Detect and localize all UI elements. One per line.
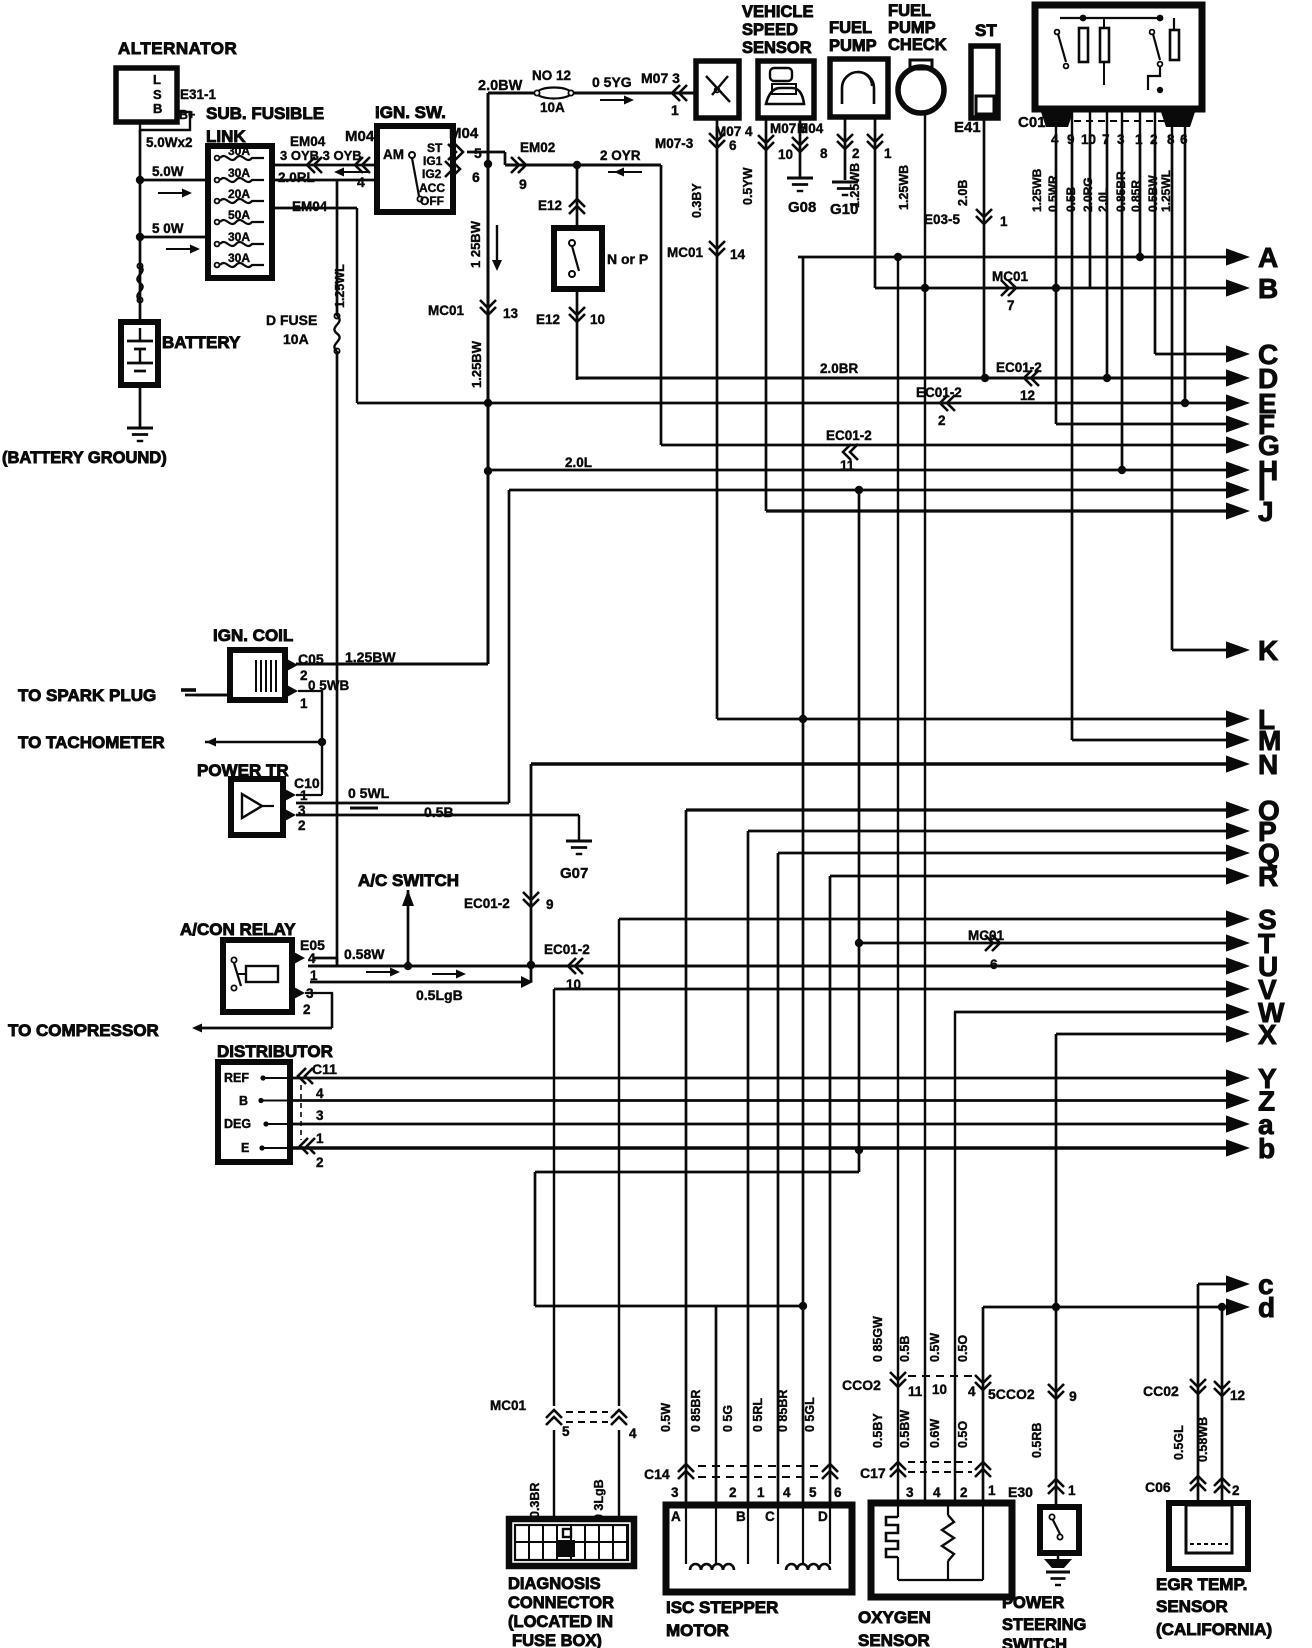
svg-text:MC01: MC01 [490, 1398, 527, 1413]
svg-text:EM02: EM02 [520, 140, 555, 155]
wire 0.5GL EGR [1197, 1284, 1200, 1503]
svg-text:(LOCATED IN: (LOCATED IN [508, 1613, 613, 1631]
svg-text:0 5WL: 0 5WL [348, 785, 390, 801]
wire speed sensor right pin to G08 [799, 118, 802, 178]
svg-text:10: 10 [778, 147, 793, 162]
svg-text:0.5GL: 0.5GL [1172, 1425, 1186, 1460]
svg-text:E: E [241, 1141, 249, 1155]
svg-text:1.25WB: 1.25WB [848, 163, 862, 208]
svg-text:EC01-2: EC01-2 [826, 428, 872, 443]
svg-text:1 25BW: 1 25BW [468, 220, 483, 268]
wire 0.5B to ground G07 [578, 815, 580, 841]
wire 1.25WB fuel pump check / 0.5B [924, 114, 926, 1503]
svg-text:EGR TEMP.: EGR TEMP. [1156, 1575, 1247, 1594]
svg-text:M04: M04 [797, 121, 824, 136]
svg-text:11: 11 [908, 1384, 923, 1399]
svg-text:1: 1 [1068, 1483, 1076, 1498]
wire 1.25WB fuel pump to row B [874, 117, 877, 288]
svg-text:8: 8 [820, 146, 828, 161]
battery ground [139, 385, 142, 428]
svg-text:2: 2 [316, 1155, 324, 1170]
svg-text:30A: 30A [228, 230, 250, 244]
svg-text:1.25WB: 1.25WB [897, 165, 911, 210]
wire row O [686, 808, 1228, 811]
svg-text:1: 1 [300, 696, 308, 711]
svg-text:10: 10 [590, 312, 605, 327]
wire 0.5WL power TR pin1 [296, 802, 509, 805]
svg-text:SWITCH: SWITCH [1002, 1636, 1067, 1648]
svg-text:(CALIFORNIA): (CALIFORNIA) [1156, 1620, 1272, 1639]
svg-text:FUEL: FUEL [829, 19, 872, 37]
svg-text:1: 1 [310, 968, 318, 983]
svg-text:G07: G07 [560, 865, 588, 882]
svg-text:3: 3 [1117, 132, 1125, 147]
oxygen sensor [871, 1503, 1012, 1597]
svg-text:R: R [1258, 861, 1278, 892]
svg-text:ST: ST [427, 141, 443, 155]
svg-text:M04: M04 [449, 125, 479, 142]
svg-text:4: 4 [933, 1485, 941, 1500]
svg-text:7: 7 [1102, 132, 1110, 147]
svg-text:1.25BW: 1.25BW [345, 649, 396, 665]
svg-text:0 5YG: 0 5YG [592, 74, 632, 90]
wire row T [859, 942, 1228, 945]
svg-text:B: B [153, 101, 162, 116]
svg-text:AM: AM [383, 147, 404, 162]
svg-text:5 0W: 5 0W [152, 221, 184, 236]
wire row C [1155, 353, 1228, 356]
svg-text:0.5B: 0.5B [1064, 186, 1078, 212]
wire row G [661, 444, 1228, 447]
svg-text:0.5O: 0.5O [956, 1335, 970, 1362]
svg-text:B: B [1258, 273, 1278, 304]
wire 0.3BR row V to diagnosis [553, 989, 555, 1406]
svg-text:30A: 30A [228, 166, 250, 180]
wire EM02 2.0YR [505, 164, 661, 167]
svg-text:11: 11 [840, 458, 855, 473]
svg-text:TO SPARK PLUG: TO SPARK PLUG [18, 686, 156, 705]
wire 1.25BW to ign coil [296, 663, 488, 666]
svg-text:1: 1 [1135, 132, 1143, 147]
svg-text:OFF: OFF [420, 194, 444, 208]
svg-text:5: 5 [474, 145, 482, 161]
svg-text:0 85BR: 0 85BR [776, 1390, 790, 1432]
svg-text:M07 3: M07 3 [641, 70, 680, 86]
ISC stepper motor [666, 1505, 852, 1592]
wire row b branch down to row d [858, 1150, 861, 1172]
wire 1.25BW main vertical [487, 93, 490, 664]
wire 2.0BW top [488, 92, 537, 95]
svg-text:4: 4 [968, 1384, 976, 1399]
svg-text:10A: 10A [283, 331, 309, 347]
wire 1.25WB C01-4 to row F [1055, 134, 1058, 424]
svg-text:ACC: ACC [419, 181, 445, 195]
svg-text:C06: C06 [1145, 1479, 1171, 1495]
svg-text:7: 7 [1007, 298, 1015, 313]
svg-text:4: 4 [1051, 132, 1059, 147]
svg-text:0.85R: 0.85R [1129, 180, 1143, 212]
wire 3 OYB fusible link to IGN SW [272, 164, 377, 167]
wire 1.25WL C01-6 to row E [1184, 134, 1187, 403]
svg-text:2: 2 [729, 1485, 737, 1500]
wire row d left segment [535, 1305, 803, 1308]
svg-text:A/CON RELAY: A/CON RELAY [180, 920, 296, 939]
svg-text:4: 4 [783, 1485, 791, 1500]
svg-text:EM04: EM04 [290, 134, 326, 149]
svg-text:DEG: DEG [224, 1117, 251, 1131]
svg-text:TO COMPRESSOR: TO COMPRESSOR [8, 1021, 159, 1040]
svg-text:1: 1 [316, 1131, 324, 1146]
svg-text:1.25WL: 1.25WL [1159, 170, 1173, 212]
svg-text:ISC STEPPER: ISC STEPPER [666, 1598, 778, 1617]
svg-text:0.58W: 0.58W [344, 946, 385, 962]
wire 0.5LgB relay pin3 [310, 981, 524, 984]
svg-text:E12: E12 [538, 198, 562, 213]
C01 relay block [1035, 5, 1202, 109]
svg-text:0.3BY: 0.3BY [690, 183, 704, 218]
svg-text:1: 1 [757, 1485, 765, 1500]
wire row Y [290, 1077, 1228, 1080]
svg-text:2: 2 [303, 1002, 311, 1017]
wire 0.3LgB lower [618, 1430, 620, 1519]
wire row M [1072, 739, 1228, 742]
svg-text:1.25BW: 1.25BW [469, 340, 484, 388]
svg-text:SENSOR: SENSOR [742, 39, 812, 57]
svg-text:E31-1: E31-1 [180, 87, 217, 102]
fuse NO 12 10A [537, 88, 571, 99]
svg-text:NO 12: NO 12 [532, 68, 571, 83]
svg-text:0.5BY: 0.5BY [871, 1413, 885, 1448]
svg-text:3: 3 [316, 1108, 324, 1123]
svg-text:EC01-2: EC01-2 [916, 385, 962, 400]
diagnosis connector [509, 1519, 634, 1566]
svg-text:2: 2 [938, 413, 946, 428]
wire 0.85BR long vertical [802, 257, 805, 1505]
wire EM04 out [272, 207, 357, 210]
G07 ground [566, 840, 592, 843]
svg-text:K: K [1258, 635, 1278, 666]
svg-text:1.25WB: 1.25WB [1030, 168, 1044, 212]
svg-text:2: 2 [1232, 1483, 1240, 1498]
svg-text:B: B [239, 1094, 248, 1108]
svg-text:3: 3 [906, 1485, 914, 1500]
svg-text:1: 1 [671, 102, 679, 118]
svg-text:2: 2 [298, 818, 306, 833]
wire fuel pump to G10 [844, 117, 847, 180]
svg-text:EM04: EM04 [292, 199, 328, 214]
wire coil pin1 [298, 690, 322, 692]
svg-text:FUSE BOX): FUSE BOX) [512, 1632, 602, 1648]
wire 1.25WL to A/CON relay [336, 351, 339, 963]
svg-text:STEERING: STEERING [1002, 1616, 1086, 1634]
M07 switch box (top) [696, 61, 739, 118]
wire row L [717, 718, 1228, 721]
wire 0.5BWB EGR [1221, 1307, 1224, 1503]
wire row J [766, 509, 1228, 512]
svg-text:0.5W: 0.5W [659, 1403, 673, 1432]
svg-text:POWER: POWER [1002, 1594, 1064, 1612]
wire 2.0B from ST to row D [983, 118, 986, 378]
wire to row d [534, 1172, 537, 1306]
wire 0.85BR ISC [715, 1306, 718, 1505]
svg-text:ALTERNATOR: ALTERNATOR [118, 39, 237, 58]
svg-text:2.0BW: 2.0BW [478, 78, 523, 94]
svg-text:0.5LgB: 0.5LgB [416, 987, 463, 1003]
wire 0.5O to oxygen sensor [982, 1307, 985, 1503]
svg-text:4: 4 [357, 174, 365, 190]
wire 1.25WL from fusible link [336, 180, 339, 316]
wire row P [748, 830, 1228, 833]
squiggle fusible segment [137, 266, 142, 300]
wire row J branch down [858, 490, 861, 1150]
svg-text:9: 9 [1069, 1388, 1077, 1404]
svg-text:6: 6 [1180, 132, 1188, 147]
wire row S [619, 918, 1228, 921]
svg-text:3: 3 [298, 803, 306, 818]
svg-text:0.5B: 0.5B [898, 1336, 912, 1362]
svg-text:1: 1 [988, 1483, 996, 1498]
wire row a [290, 1123, 1228, 1126]
svg-text:0.5BW: 0.5BW [898, 1410, 912, 1448]
svg-text:N or P: N or P [607, 251, 648, 267]
svg-text:10: 10 [932, 1382, 947, 1397]
svg-text:MOTOR: MOTOR [666, 1621, 729, 1640]
svg-text:DISTRIBUTOR: DISTRIBUTOR [217, 1042, 333, 1061]
svg-text:2.0BR: 2.0BR [820, 361, 859, 376]
svg-text:0.5W: 0.5W [928, 1333, 942, 1362]
svg-text:2.0RG: 2.0RG [1081, 177, 1095, 212]
svg-text:9: 9 [1067, 132, 1075, 147]
svg-text:30A: 30A [228, 251, 250, 265]
svg-text:0.85BR: 0.85BR [1114, 171, 1128, 212]
svg-text:C: C [765, 1509, 775, 1524]
svg-text:1.25WL: 1.25WL [333, 264, 347, 308]
svg-text:1: 1 [884, 146, 892, 161]
wire 0.85BR C01-1 to row A [1139, 134, 1142, 257]
EGR temp sensor [1169, 1503, 1248, 1569]
svg-text:0.5WR: 0.5WR [1046, 175, 1060, 212]
svg-text:2.0RL: 2.0RL [278, 170, 315, 185]
svg-text:PUMP: PUMP [829, 37, 877, 55]
wire row Q [778, 852, 1228, 855]
wire row N [531, 762, 1228, 766]
wire 2.0RL [272, 179, 377, 182]
svg-text:FUEL: FUEL [888, 2, 931, 20]
wire row R [830, 875, 1228, 878]
svg-text:SENSOR: SENSOR [1156, 1597, 1228, 1616]
wire 2.0YR down to row G [660, 165, 663, 445]
svg-text:6: 6 [729, 138, 737, 153]
svg-text:0 5G: 0 5G [721, 1405, 735, 1432]
svg-text:0 5GL: 0 5GL [803, 1397, 817, 1432]
svg-text:12: 12 [1020, 388, 1035, 403]
svg-text:2.0L: 2.0L [1096, 188, 1110, 212]
svg-text:E30: E30 [1008, 1484, 1033, 1500]
svg-text:0.5BW: 0.5BW [1146, 175, 1160, 212]
svg-text:M04: M04 [345, 128, 375, 145]
wire relay pin4 to 1.25WL [314, 957, 337, 960]
wire 0.5RL ISC [777, 853, 780, 1505]
svg-text:3 OYB 3 OYB: 3 OYB 3 OYB [280, 148, 362, 163]
svg-text:9: 9 [519, 176, 527, 192]
wire 0.85GW oxygen sensor [897, 257, 899, 1503]
wire row F [1056, 423, 1228, 426]
svg-text:BATTERY: BATTERY [162, 333, 241, 352]
svg-text:SENSOR: SENSOR [858, 1631, 930, 1648]
wire to compressor horizontal [195, 1027, 332, 1030]
wire row c [1198, 1283, 1228, 1286]
svg-text:A/C SWITCH: A/C SWITCH [358, 871, 459, 890]
svg-text:E03-5: E03-5 [924, 212, 961, 227]
svg-text:B: B [736, 1509, 746, 1524]
svg-text:C05: C05 [298, 651, 324, 667]
svg-text:0.3BR: 0.3BR [528, 1483, 542, 1518]
wire N or P to row D [576, 289, 579, 380]
svg-text:M07 4: M07 4 [715, 124, 753, 139]
wire row B [875, 287, 1228, 290]
svg-text:TO TACHOMETER: TO TACHOMETER [18, 733, 165, 752]
svg-text:8: 8 [1167, 132, 1175, 147]
svg-text:6: 6 [834, 1485, 842, 1500]
wire row b [290, 1146, 1228, 1149]
wire 0.5B C01-10 to row B [1089, 134, 1092, 287]
wire row N down to relay 0.5BW [530, 764, 533, 982]
wire 2.0YR to N or P switch [576, 165, 579, 228]
wire 0.5WR C01-9 to row M [1071, 134, 1074, 740]
svg-text:C11: C11 [312, 1061, 337, 1077]
wire IGN SW pin 5 [467, 151, 505, 154]
svg-text:REF: REF [224, 1071, 249, 1085]
svg-text:4: 4 [629, 1426, 637, 1441]
svg-text:SUB. FUSIBLE: SUB. FUSIBLE [206, 104, 324, 123]
svg-text:2: 2 [300, 668, 308, 683]
svg-text:2 OYR: 2 OYR [600, 148, 641, 163]
svg-text:X: X [1258, 1019, 1277, 1050]
D-FUSE 10A [334, 316, 339, 351]
svg-text:30A: 30A [228, 144, 250, 158]
svg-text:CONNECTOR: CONNECTOR [508, 1594, 614, 1612]
wire row V [554, 988, 1228, 991]
svg-text:14: 14 [730, 247, 746, 262]
svg-text:1: 1 [1000, 214, 1008, 229]
wire to compressor [331, 993, 333, 1028]
wire 0.3LgB row S to diagnosis [618, 919, 620, 1406]
wire 0.5RB power steering [1055, 1034, 1058, 1507]
svg-text:E12: E12 [536, 312, 560, 327]
svg-text:CCO2: CCO2 [842, 1377, 881, 1393]
svg-text:0 3LgB: 0 3LgB [592, 1479, 606, 1521]
wire to A/C switch [407, 890, 410, 966]
svg-text:9: 9 [546, 897, 554, 912]
wire 2.0L C01-3 to row H [1121, 134, 1124, 470]
wire row U [310, 965, 1228, 968]
wire 0.3BY M07 to row L [716, 118, 719, 719]
svg-text:VEHICLE: VEHICLE [742, 3, 814, 21]
svg-text:CHECK: CHECK [888, 36, 947, 54]
svg-text:C01: C01 [1018, 114, 1046, 131]
svg-text:M07-3: M07-3 [655, 136, 694, 151]
wire row I [509, 489, 1228, 492]
svg-text:SPEED: SPEED [742, 21, 798, 39]
svg-text:E41: E41 [954, 119, 981, 136]
svg-text:0.5YW: 0.5YW [741, 167, 755, 205]
svg-text:MC01: MC01 [428, 303, 465, 318]
wire row Z [290, 1099, 1228, 1102]
svg-text:20A: 20A [228, 187, 250, 201]
wire row D [577, 377, 1228, 380]
svg-text:0 85GW: 0 85GW [871, 1316, 885, 1362]
svg-text:6: 6 [990, 957, 998, 972]
wire 0.5WL row I to power TR [508, 490, 511, 803]
svg-text:0 5RL: 0 5RL [751, 1398, 765, 1432]
svg-text:0.6W: 0.6W [928, 1419, 942, 1448]
svg-text:(BATTERY GROUND): (BATTERY GROUND) [2, 449, 167, 467]
wire 0.5BW C01-8 to row K [1171, 134, 1174, 650]
svg-text:0.5O: 0.5O [956, 1421, 970, 1448]
svg-text:CC02: CC02 [1143, 1383, 1179, 1399]
wire 0.5W row W to oxygen sensor [954, 1012, 956, 1503]
wire alternator 5.0W stubs [140, 179, 208, 182]
svg-text:0.5B: 0.5B [424, 804, 454, 820]
svg-text:IGN. SW.: IGN. SW. [375, 103, 446, 122]
C01 pin10 corner into row B [1089, 286, 1091, 288]
svg-text:5.0Wx2: 5.0Wx2 [146, 135, 193, 150]
svg-text:5.0W: 5.0W [152, 164, 184, 179]
svg-text:3: 3 [671, 1485, 679, 1500]
wire 0.5GL ISC [829, 876, 832, 1505]
svg-text:5: 5 [562, 1424, 570, 1439]
svg-text:5CCO2: 5CCO2 [988, 1386, 1035, 1402]
svg-text:A: A [671, 1509, 681, 1524]
wire row E [357, 402, 1228, 405]
svg-text:PUMP: PUMP [888, 19, 936, 37]
wire 0.5B power TR to G07 [296, 814, 579, 817]
svg-text:2: 2 [960, 1485, 968, 1500]
wire row X [1056, 1033, 1228, 1036]
wire row W [954, 1011, 1228, 1014]
svg-text:D FUSE: D FUSE [266, 312, 317, 328]
wire 0.3BR lower [553, 1430, 555, 1519]
wire 0.5G ISC [747, 831, 750, 1505]
svg-text:0 85BR: 0 85BR [689, 1390, 703, 1432]
svg-text:MC01: MC01 [667, 245, 704, 260]
svg-text:A: A [1258, 242, 1278, 273]
svg-text:G08: G08 [788, 199, 816, 216]
wire EM04 down to row E [356, 208, 358, 403]
svg-text:IG1: IG1 [423, 154, 443, 168]
svg-text:d: d [1258, 1292, 1275, 1323]
svg-text:EC01-2: EC01-2 [464, 896, 510, 911]
svg-text:J: J [1258, 496, 1274, 527]
svg-text:6: 6 [472, 169, 480, 185]
wire row A [798, 256, 1228, 259]
svg-text:B+: B+ [179, 108, 195, 122]
svg-text:2: 2 [852, 146, 860, 161]
svg-text:10: 10 [566, 977, 581, 992]
svg-text:IGN. COIL: IGN. COIL [213, 626, 293, 645]
svg-text:2.0L: 2.0L [565, 455, 592, 470]
wire row H [488, 469, 1228, 472]
C01 connector feet [1040, 109, 1074, 127]
wire to spark plug [185, 694, 232, 697]
wire 0.5W ISC A [685, 810, 688, 1505]
svg-text:C14: C14 [644, 1466, 670, 1482]
wire 2.0RG C01-7 to row D [1106, 134, 1109, 378]
svg-text:b: b [1258, 1133, 1275, 1164]
svg-text:10: 10 [1081, 132, 1096, 147]
svg-text:50A: 50A [228, 208, 250, 222]
svg-text:EC01-2: EC01-2 [544, 942, 590, 957]
